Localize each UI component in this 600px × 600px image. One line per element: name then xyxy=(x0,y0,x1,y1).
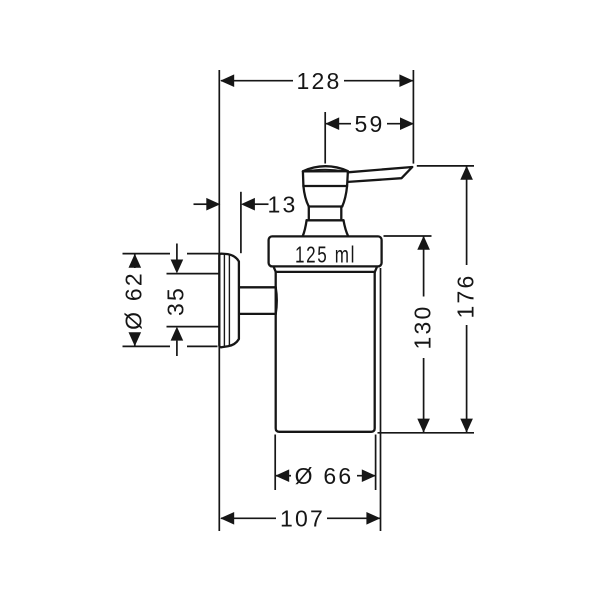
dimension 176 top arrowhead xyxy=(460,166,473,180)
dimension 13 right tail and arrowhead xyxy=(254,203,269,205)
dimension dia66 line left segment xyxy=(275,475,291,477)
dimension dia62 top arrowhead xyxy=(129,254,142,268)
dimension 130 top arrowhead xyxy=(417,236,430,250)
bottle neck ring bottom line xyxy=(276,271,375,273)
svg-text:128: 128 xyxy=(297,68,342,94)
dimension 128 right arrowhead xyxy=(399,74,413,87)
svg-text:176: 176 xyxy=(452,274,478,319)
dimension 176 line bottom segment xyxy=(466,325,468,433)
dimension 130 line bottom segment xyxy=(423,358,425,433)
extension line for 13 at plate front xyxy=(240,192,242,253)
bottle neck ring left xyxy=(274,267,276,272)
pump skirt right xyxy=(344,220,349,236)
wall plate contour line 2 xyxy=(228,255,230,346)
dimension dia62 vertical line bottom segment xyxy=(134,333,136,346)
dimension 107 right arrowhead xyxy=(366,512,380,525)
svg-text:107: 107 xyxy=(280,506,325,532)
dimension 176 line top segment xyxy=(466,166,468,265)
arm top line xyxy=(239,286,275,288)
pump neck bottom line xyxy=(307,219,344,221)
107 right extension line from collar xyxy=(380,268,382,531)
dimension 128 left arrowhead xyxy=(220,74,234,87)
35 top extension line xyxy=(167,273,219,275)
dimension 35 upper line and arrowhead xyxy=(176,244,178,261)
dia62 top extension line segment b xyxy=(187,253,219,255)
dimension 107 line left segment xyxy=(221,517,276,519)
dimension 13 left tail and arrowhead xyxy=(194,203,208,205)
extension line right of 128 down to spout tip xyxy=(412,70,414,164)
pump cap mid line xyxy=(303,185,347,187)
dia62 top extension line segment a xyxy=(123,253,171,255)
arm end bulge on bottle xyxy=(276,287,277,314)
dia66 right extension line xyxy=(375,435,377,491)
pump cap body right side xyxy=(342,171,348,206)
wall plate outline xyxy=(219,254,239,348)
bottle body xyxy=(276,272,375,432)
pump cap inner rim arc xyxy=(306,169,345,171)
pump neck right xyxy=(340,207,342,221)
176 top extension line from spout tip xyxy=(417,165,474,167)
dimension 59 left arrowhead xyxy=(325,117,339,130)
pump cap dome chord xyxy=(303,170,348,172)
pump neck left xyxy=(308,207,310,221)
dimension 176 bottom arrowhead xyxy=(460,419,473,433)
dimension dia62 vertical line top segment xyxy=(134,254,136,268)
dia62 bottom extension line segment b xyxy=(187,345,218,347)
collar 125ml box xyxy=(269,236,382,266)
dimension 107 line right segment xyxy=(327,517,380,519)
dimension 59 line left segment xyxy=(325,123,351,125)
dimension dia66 right arrowhead xyxy=(362,469,376,482)
svg-text:125 ml: 125 ml xyxy=(295,241,356,267)
wall plate contour line 1 xyxy=(223,254,225,347)
arm bottom line xyxy=(239,313,275,315)
spout xyxy=(348,167,413,182)
svg-text:13: 13 xyxy=(268,192,298,218)
pump cap body left side xyxy=(303,171,309,206)
pump cap dome xyxy=(303,166,348,171)
pump cap bottom line xyxy=(309,205,342,207)
extension line left of 59 down to pump cap xyxy=(324,112,326,164)
dimension 130 bottom arrowhead xyxy=(417,419,430,433)
35 bottom extension line xyxy=(167,326,219,328)
wall line xyxy=(218,70,220,531)
dimension dia66 line right segment xyxy=(357,475,376,477)
dia62 bottom extension line segment a xyxy=(123,345,171,347)
svg-text:Ø 66: Ø 66 xyxy=(295,463,354,489)
pump skirt left xyxy=(303,220,307,236)
dimension dia62 bottom arrowhead xyxy=(129,332,142,346)
dimension 128 line right segment xyxy=(344,80,413,82)
svg-text:59: 59 xyxy=(355,111,385,137)
130 top extension line from collar top xyxy=(384,235,432,237)
dimension dia66 left arrowhead xyxy=(275,469,289,482)
dimension 59 line right segment xyxy=(387,123,414,125)
dia66 left extension line xyxy=(274,435,276,491)
shared bottom extension line xyxy=(378,432,475,434)
dimension 130 line top segment xyxy=(423,236,425,297)
svg-text:130: 130 xyxy=(409,305,435,350)
svg-text:35: 35 xyxy=(163,286,189,316)
dimension 107 left arrowhead xyxy=(220,512,234,525)
dimension 35 lower line and arrowhead xyxy=(176,341,178,356)
bottle neck ring right xyxy=(375,267,377,272)
dimension 59 right arrowhead xyxy=(400,117,414,130)
svg-text:Ø 62: Ø 62 xyxy=(121,271,147,330)
dimension 128 line left segment xyxy=(221,80,293,82)
